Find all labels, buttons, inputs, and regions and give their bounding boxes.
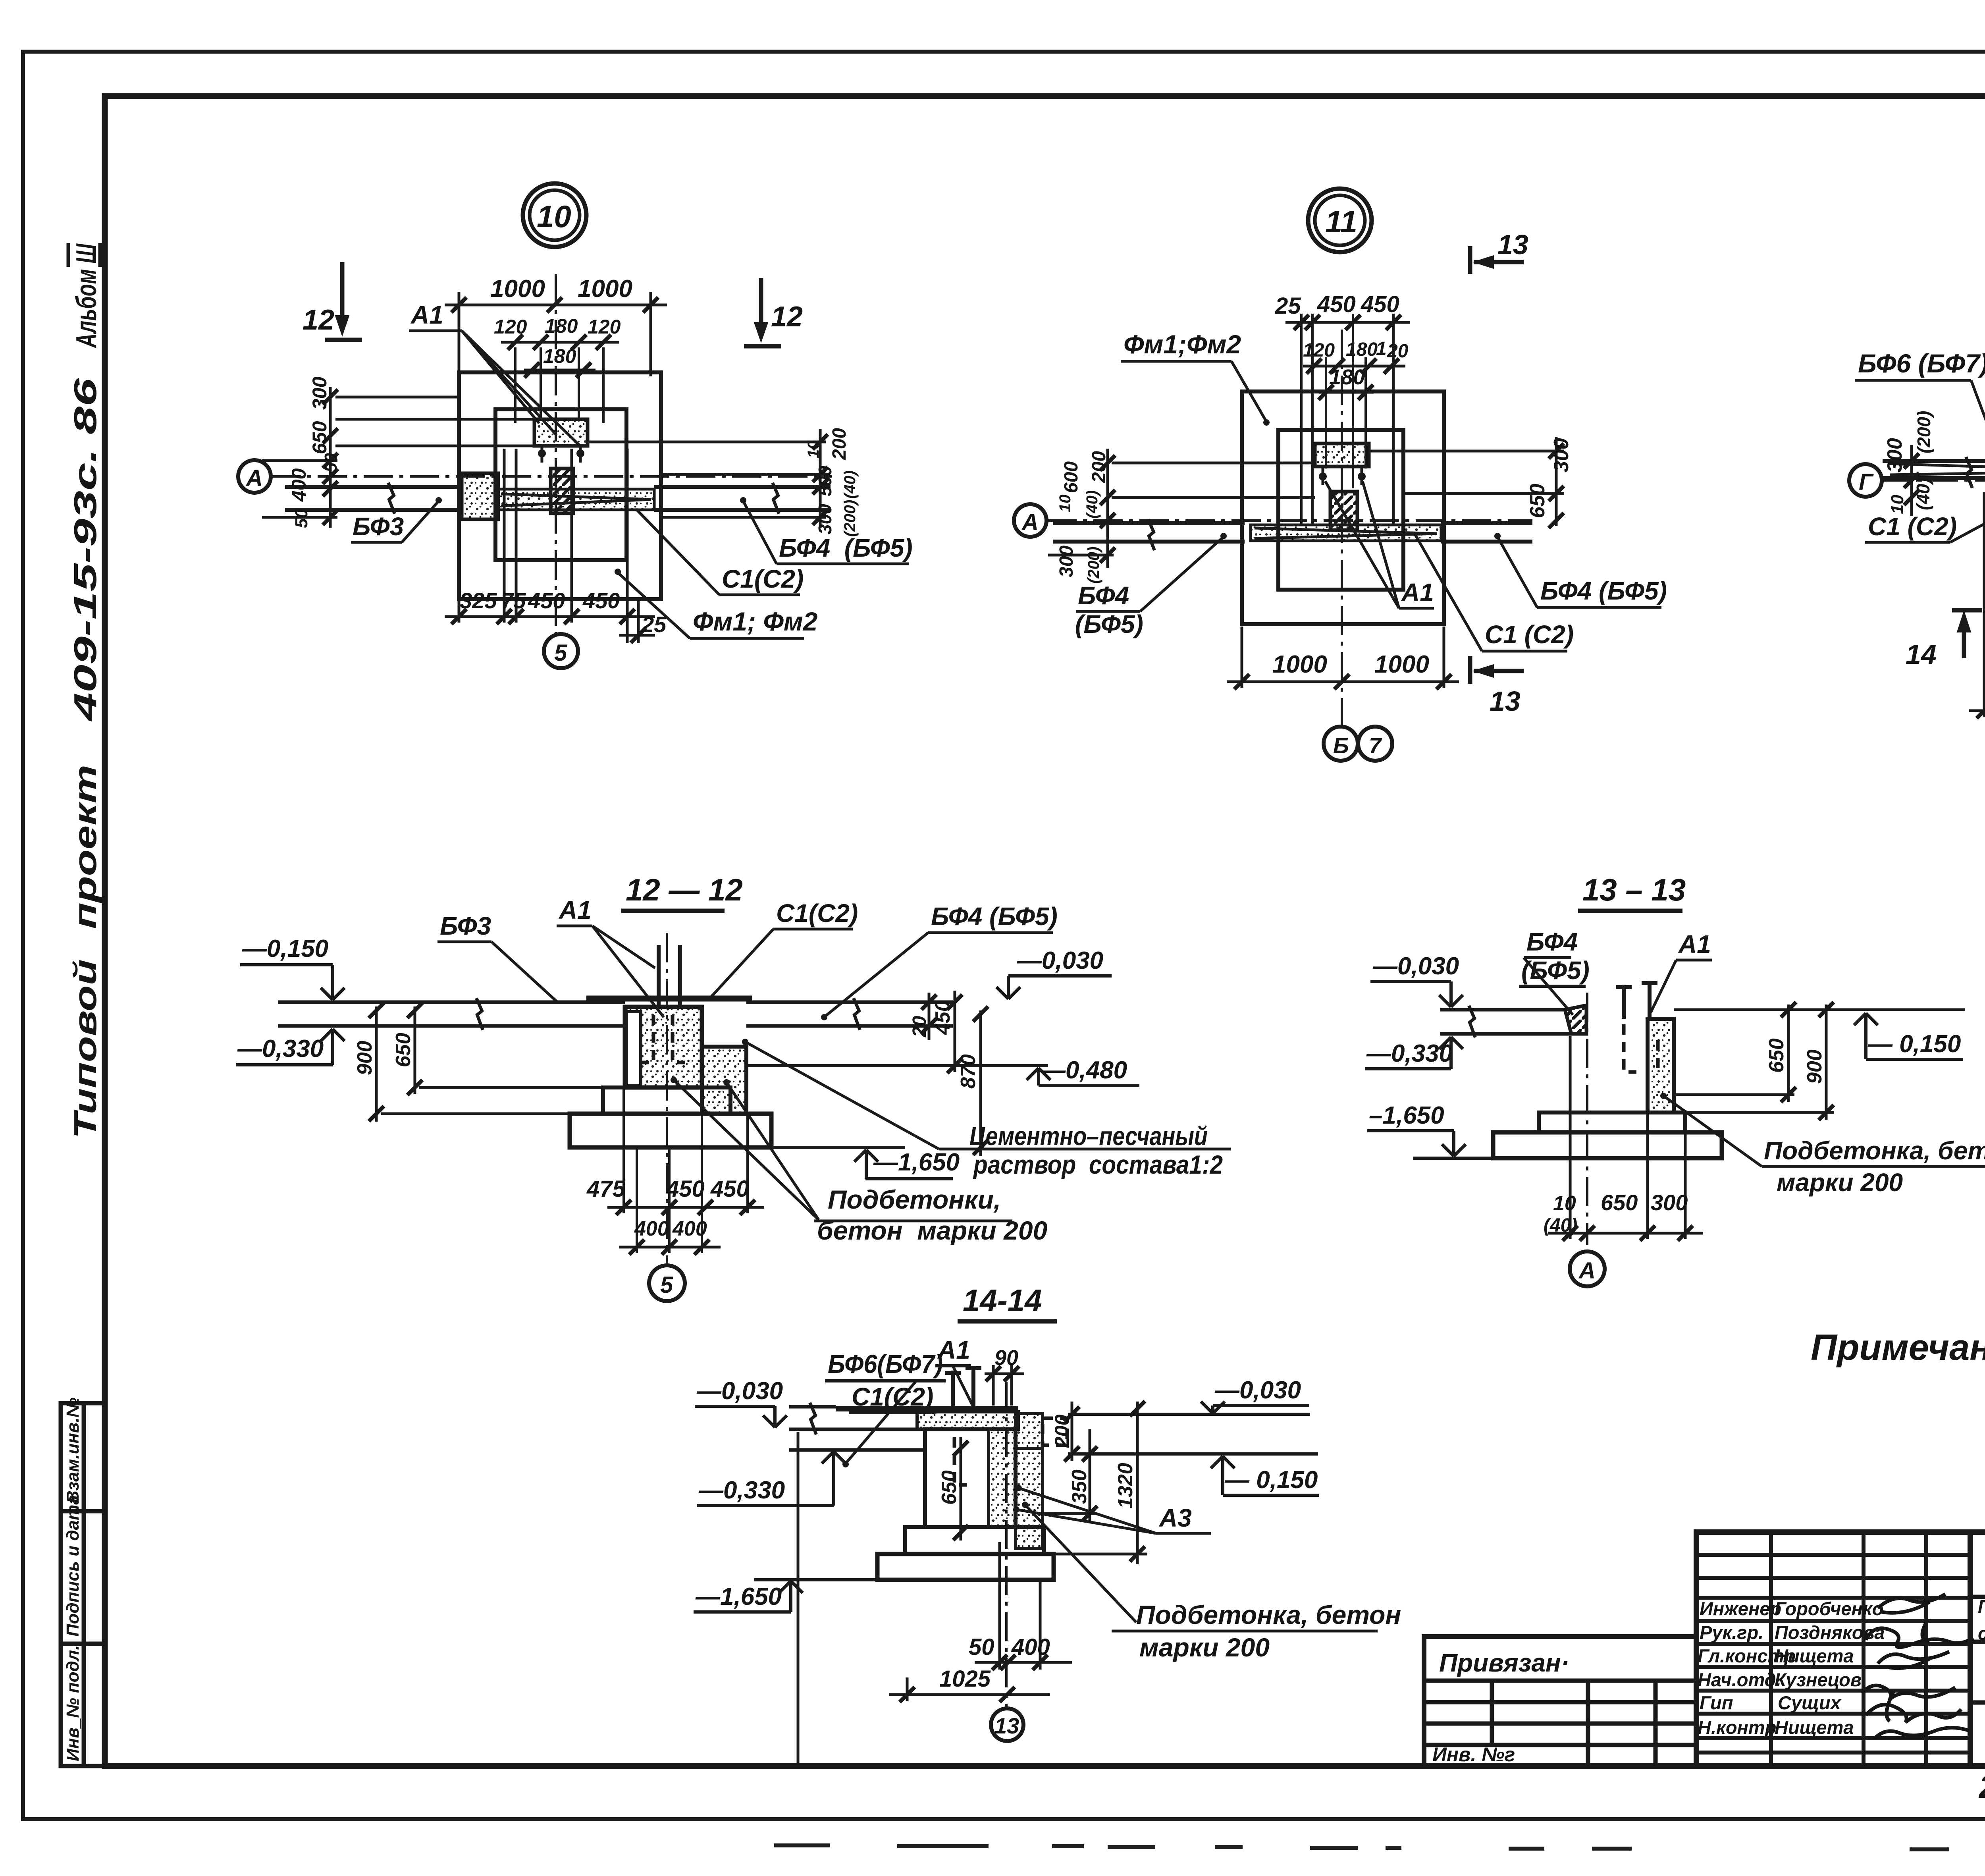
top plate С1 thick line xyxy=(836,1406,1018,1411)
vertical extension lines through figure xyxy=(1301,314,1393,524)
section marker 14 left xyxy=(1952,610,1982,658)
foundation inner square xyxy=(495,409,626,560)
svg-text:А1: А1 xyxy=(1401,578,1434,607)
svg-text:БФ4 (БФ5): БФ4 (БФ5) xyxy=(931,902,1058,931)
right step dotted xyxy=(702,1047,746,1114)
top plate С1 thick line xyxy=(586,996,752,1002)
grid axis circle А xyxy=(1014,504,1046,537)
monolithic joint strip xyxy=(1251,525,1441,541)
svg-text:Альбом Ш: Альбом Ш xyxy=(71,243,102,348)
vertical extension lines xyxy=(624,1088,748,1253)
svg-text:870: 870 xyxy=(957,1054,980,1089)
svg-text:Привязан·: Привязан· xyxy=(1439,1648,1569,1677)
svg-text:А1: А1 xyxy=(558,896,592,924)
floor beam left БФ3 xyxy=(278,998,625,1030)
svg-text:марки 200: марки 200 xyxy=(1139,1633,1270,1662)
anchor dashed in pedestal xyxy=(954,1437,967,1485)
svg-text:(40): (40) xyxy=(841,470,859,499)
svg-text:(40): (40) xyxy=(1544,1215,1577,1236)
beam БФ6 dotted under plate xyxy=(917,1412,1018,1429)
floor beam right БФ4 xyxy=(746,998,953,1030)
svg-text:400: 400 xyxy=(1011,1634,1050,1660)
foundation step xyxy=(603,1087,730,1114)
section marker 12 right xyxy=(744,278,781,346)
svg-text:—0,030: —0,030 xyxy=(696,1377,783,1405)
svg-text:Фм1;Фм2: Фм1;Фм2 xyxy=(1124,330,1241,359)
anchor bolts xyxy=(538,449,546,457)
svg-text:50: 50 xyxy=(292,509,311,528)
left dimension stack xyxy=(262,387,534,528)
beam end embedded left xyxy=(626,1012,641,1086)
dimension 180 xyxy=(524,369,595,372)
А3 dotted band down xyxy=(1016,1448,1043,1548)
svg-text:25: 25 xyxy=(1275,293,1301,319)
svg-text:(БФ5): (БФ5) xyxy=(1521,956,1590,985)
svg-text:— 0,150: — 0,150 xyxy=(1867,1030,1961,1058)
svg-text:—0,330: —0,330 xyxy=(698,1477,785,1504)
svg-text:—0,030: —0,030 xyxy=(1214,1377,1301,1404)
dimension 120 180 1 20 xyxy=(1303,365,1405,368)
svg-text:120: 120 xyxy=(494,316,527,338)
foundation outer square Фм1;Фм2 xyxy=(1242,391,1444,624)
svg-text:11: 11 xyxy=(1325,204,1357,239)
svg-text:14: 14 xyxy=(1906,639,1937,670)
svg-text:(200): (200) xyxy=(841,500,859,537)
svg-text:50: 50 xyxy=(969,1634,994,1660)
svg-text:1320: 1320 xyxy=(1114,1463,1137,1509)
svg-text:650: 650 xyxy=(1765,1038,1788,1073)
svg-text:Позднякова: Позднякова xyxy=(1775,1622,1885,1643)
svg-text:(40): (40) xyxy=(1913,478,1933,510)
beam БФ4 left (plan) xyxy=(1053,519,1245,550)
svg-text:200: 200 xyxy=(1089,451,1110,483)
svg-text:с сейсмичностью 7,8,9 баллов.): с сейсмичностью 7,8,9 баллов.) xyxy=(1978,1623,1985,1644)
svg-text:300: 300 xyxy=(1550,438,1573,472)
svg-text:А3: А3 xyxy=(1158,1504,1192,1532)
title block right part grid xyxy=(1970,1532,1985,1766)
svg-text:300: 300 xyxy=(1056,546,1077,577)
right dimension stack xyxy=(588,429,826,528)
svg-text:900: 900 xyxy=(353,1041,376,1075)
bottom dims 400 400 xyxy=(619,1246,721,1249)
svg-text:1000: 1000 xyxy=(490,275,545,303)
svg-text:марки 200: марки 200 xyxy=(1777,1168,1903,1197)
svg-text:13: 13 xyxy=(994,1713,1019,1738)
grid circle А xyxy=(1570,1251,1605,1286)
svg-text:А1: А1 xyxy=(937,1336,970,1364)
svg-text:10: 10 xyxy=(1888,495,1907,514)
svg-text:Инв_№ подл.: Инв_№ подл. xyxy=(63,1645,83,1761)
vertical centerline dash-dot xyxy=(555,274,557,633)
svg-text:проект: проект xyxy=(67,765,103,929)
anchor plate dotted xyxy=(534,419,588,446)
section marker 12 left xyxy=(325,262,362,340)
svg-text:12: 12 xyxy=(303,304,334,336)
foundation step xyxy=(905,1527,1044,1554)
svg-text:Подбетонки,: Подбетонки, xyxy=(828,1185,1001,1214)
anchor dashed xyxy=(1624,1024,1658,1072)
bottom dimension 2000 400 xyxy=(1969,492,1985,717)
left rotated dims xyxy=(1904,453,1919,469)
svg-text:Горобченко: Горобченко xyxy=(1775,1598,1883,1619)
signature squiggles xyxy=(1862,1594,1973,1739)
svg-text:БФ4 (БФ5): БФ4 (БФ5) xyxy=(779,534,913,562)
vertical centerline dash-dot xyxy=(1341,330,1343,725)
svg-text:БФ6 (БФ7): БФ6 (БФ7) xyxy=(1858,349,1985,378)
svg-text:Взам.инв.№: Взам.инв.№ xyxy=(63,1398,83,1503)
svg-text:—0,150: —0,150 xyxy=(242,935,328,962)
svg-text:450: 450 xyxy=(582,588,620,613)
left rotated dims 900 650 xyxy=(376,1006,625,1122)
А3 block dotted xyxy=(1016,1413,1043,1448)
svg-text:Нищета: Нищета xyxy=(1775,1717,1854,1738)
overline and underline of album III numeral xyxy=(67,243,70,267)
svg-text:13: 13 xyxy=(1490,686,1521,717)
grid circle Б xyxy=(1324,727,1358,761)
svg-text:1: 1 xyxy=(1376,338,1387,359)
svg-text:Г: Г xyxy=(1859,469,1874,495)
svg-text:12 — 12: 12 — 12 xyxy=(626,872,743,907)
grid axis circle А xyxy=(238,460,271,493)
svg-text:БФ6(БФ7): БФ6(БФ7) xyxy=(828,1349,943,1379)
svg-text:5: 5 xyxy=(660,1272,673,1298)
fold mark dashes below border xyxy=(774,1845,1985,1850)
svg-text:25665-03: 25665-03 xyxy=(1978,1769,1985,1805)
svg-text:13 – 13: 13 – 13 xyxy=(1582,872,1686,907)
beam seat dotted left xyxy=(462,473,498,519)
monolithic joint strip xyxy=(498,489,654,510)
dimension 180 xyxy=(1319,391,1374,394)
horizontal axis dash-dot xyxy=(1883,479,1985,482)
svg-text:5: 5 xyxy=(554,640,567,666)
foundation step xyxy=(1539,1112,1685,1132)
vertical centerline dash-dot xyxy=(1005,1382,1008,1707)
svg-text:Инженер: Инженер xyxy=(1700,1598,1781,1619)
foundation outer square Фм1 xyxy=(459,372,661,599)
svg-text:— 0,150: — 0,150 xyxy=(1224,1466,1318,1494)
svg-text:12: 12 xyxy=(771,301,803,333)
foundation inner square xyxy=(1278,430,1403,590)
svg-text:(40): (40) xyxy=(1083,490,1101,519)
right dims 200 350 1320 650 xyxy=(961,1402,1147,1564)
svg-text:С1(С2): С1(С2) xyxy=(776,899,858,927)
svg-text:—0,030: —0,030 xyxy=(1372,952,1459,980)
svg-text:Б: Б xyxy=(1333,733,1349,758)
svg-text:А1: А1 xyxy=(1678,930,1711,958)
column above xyxy=(657,945,661,1006)
svg-text:(200): (200) xyxy=(1914,411,1934,453)
pedestal dotted band right xyxy=(989,1429,1016,1527)
svg-text:Производственная база ремстрой: Производственная база ремстройучастка с xyxy=(1978,1596,1985,1617)
beam БФ4 right (plan) xyxy=(1441,523,1532,542)
svg-text:450: 450 xyxy=(1317,291,1356,317)
svg-text:409-15-93с. 86: 409-15-93с. 86 xyxy=(67,378,103,722)
svg-text:БФ3: БФ3 xyxy=(440,912,491,940)
svg-text:Типовой: Типовой xyxy=(67,959,103,1139)
section marker 13 bottom xyxy=(1470,656,1524,684)
node circle 11 xyxy=(1308,189,1372,252)
svg-text:650: 650 xyxy=(938,1470,961,1505)
base slab xyxy=(570,1114,771,1147)
svg-text:1000: 1000 xyxy=(578,275,632,303)
column hatched xyxy=(551,469,573,513)
svg-text:10: 10 xyxy=(805,441,822,459)
svg-text:С1 (С2): С1 (С2) xyxy=(1868,512,1957,541)
bottom dims 10 (40) 650 300 xyxy=(1548,1036,1703,1239)
grid circle 5 xyxy=(649,1265,685,1301)
svg-text:Подбетонка, бетон: Подбетонка, бетон xyxy=(1764,1136,1985,1165)
bottom dim 1025 xyxy=(798,1432,1050,1763)
svg-text:600: 600 xyxy=(1061,461,1082,493)
signature table grid xyxy=(1696,1532,1970,1766)
bottom dims 475 450 450 xyxy=(607,1206,764,1209)
svg-text:180: 180 xyxy=(1329,365,1365,389)
svg-text:Н.контр: Н.контр xyxy=(1698,1717,1776,1738)
svg-text:180: 180 xyxy=(1346,339,1378,360)
svg-text:БФ3: БФ3 xyxy=(353,512,404,541)
svg-text:Рук.гр.: Рук.гр. xyxy=(1700,1622,1763,1643)
svg-text:1000: 1000 xyxy=(1374,651,1429,678)
floor beam lines left xyxy=(1440,1006,1570,1037)
svg-text:650: 650 xyxy=(392,1033,415,1067)
svg-text:325: 325 xyxy=(460,588,497,613)
bottom dimension 325 75 450 450 25 xyxy=(445,449,655,643)
svg-text:(БФ5): (БФ5) xyxy=(1075,610,1143,638)
vertical centerline dash-dot xyxy=(666,933,668,1263)
svg-text:450: 450 xyxy=(931,1000,954,1035)
svg-text:200: 200 xyxy=(1051,1414,1073,1448)
svg-text:Гип: Гип xyxy=(1700,1692,1733,1713)
signature table role labels xyxy=(1698,1598,1796,1738)
svg-text:Нищета: Нищета xyxy=(1775,1645,1854,1666)
svg-text:14-14: 14-14 xyxy=(963,1283,1042,1318)
svg-text:—0,330: —0,330 xyxy=(1366,1040,1453,1067)
floor beam lines left xyxy=(789,1403,927,1450)
dimension 1000 1000 top xyxy=(445,292,667,376)
svg-text:650: 650 xyxy=(308,421,331,454)
svg-text:450: 450 xyxy=(666,1176,705,1202)
svg-text:А: А xyxy=(1021,509,1039,535)
svg-text:—1,650: —1,650 xyxy=(695,1583,782,1610)
horizontal axis dash-dot xyxy=(1047,519,1532,522)
svg-text:Подпись и дата: Подпись и дата xyxy=(63,1495,83,1637)
svg-text:С1 (С2): С1 (С2) xyxy=(1485,620,1574,649)
column dotted xyxy=(1648,1019,1674,1112)
svg-text:Подбетонка, бетон: Подбетонка, бетон xyxy=(1136,1600,1401,1629)
pedestal dotted xyxy=(625,1007,702,1087)
svg-text:75: 75 xyxy=(501,588,526,613)
extension lines from bolt dims to plate xyxy=(515,347,603,423)
svg-text:300: 300 xyxy=(815,504,835,534)
svg-text:650: 650 xyxy=(1526,484,1549,518)
svg-text:Фм1; Фм2: Фм1; Фм2 xyxy=(693,607,818,636)
base slab xyxy=(1493,1132,1722,1158)
svg-text:С1(С2): С1(С2) xyxy=(722,565,804,593)
anchor bolts above xyxy=(945,1366,981,1409)
svg-text:180: 180 xyxy=(545,315,578,337)
svg-text:Цементно–песчаный: Цементно–песчаный xyxy=(969,1121,1208,1151)
section marker 13 top xyxy=(1470,246,1524,274)
svg-text:300: 300 xyxy=(308,376,331,410)
svg-text:А: А xyxy=(1578,1258,1596,1284)
bottom dimension 1000 1000 xyxy=(1227,627,1459,688)
svg-text:Примечания см. лист 11.: Примечания см. лист 11. xyxy=(1811,1327,1985,1368)
anchor slots dashed xyxy=(641,1015,685,1062)
svg-text:Инв. №г: Инв. №г xyxy=(1432,1743,1515,1766)
svg-text:300: 300 xyxy=(1651,1190,1688,1215)
svg-text:1025: 1025 xyxy=(939,1666,991,1692)
svg-text:50: 50 xyxy=(321,453,341,472)
svg-text:7: 7 xyxy=(1369,733,1382,758)
svg-text:900: 900 xyxy=(1803,1049,1826,1084)
grid circle 7 xyxy=(1358,727,1392,761)
svg-text:—0,030: —0,030 xyxy=(1017,947,1103,974)
node circle 10 xyxy=(523,183,586,247)
svg-text:400: 400 xyxy=(634,1217,669,1240)
beam БФ6 left (plan) xyxy=(1883,457,1985,488)
right dimension stack xyxy=(1369,437,1564,526)
svg-text:350: 350 xyxy=(1068,1469,1091,1504)
bottom dims 50 400 xyxy=(975,1542,1072,1670)
svg-text:20: 20 xyxy=(909,1016,930,1037)
grid axis circle Г xyxy=(1849,464,1882,497)
svg-text:120: 120 xyxy=(1303,340,1335,361)
beam wedge hatched xyxy=(1565,1005,1586,1034)
svg-text:25: 25 xyxy=(641,612,667,637)
signature table name labels xyxy=(1775,1598,1885,1738)
svg-text:1000: 1000 xyxy=(1272,651,1327,678)
left dimension stack xyxy=(1048,449,1315,568)
grid circle 13 xyxy=(991,1708,1023,1741)
beam БФ3 left (plan) xyxy=(285,483,462,514)
svg-text:А: А xyxy=(245,465,263,491)
right dims 650 900 xyxy=(1674,1005,1965,1120)
svg-text:650: 650 xyxy=(1601,1190,1638,1215)
left margin small table (Инв strip) xyxy=(61,1403,105,1766)
right rotated dims 20 450 870 xyxy=(929,991,981,1156)
horizontal axis dash-dot line А xyxy=(272,475,832,478)
svg-text:475: 475 xyxy=(586,1176,626,1202)
svg-text:Сущих: Сущих xyxy=(1778,1692,1842,1713)
svg-text:БФ4: БФ4 xyxy=(1078,581,1129,610)
grid circle 5 xyxy=(544,634,578,668)
svg-text:13: 13 xyxy=(1497,229,1528,260)
svg-text:Кузнецов: Кузнецов xyxy=(1775,1669,1862,1690)
svg-text:10: 10 xyxy=(537,199,571,234)
svg-text:180: 180 xyxy=(543,345,576,367)
svg-text:—1,650: —1,650 xyxy=(873,1149,960,1176)
dimension 25 450 450 xyxy=(1285,321,1410,324)
column hatched xyxy=(1330,492,1357,530)
pedestal outline xyxy=(925,1429,1016,1527)
dimension 120 180 120 xyxy=(501,341,619,344)
svg-text:—0,480: —0,480 xyxy=(1041,1057,1127,1084)
svg-text:Нач.отд.: Нач.отд. xyxy=(1698,1669,1781,1690)
svg-text:БФ4 (БФ5): БФ4 (БФ5) xyxy=(1540,576,1667,605)
svg-text:10: 10 xyxy=(1056,495,1074,513)
anchor bolts xyxy=(1319,472,1327,480)
svg-text:400: 400 xyxy=(288,468,310,502)
vertical centerline dash-dot xyxy=(1586,993,1588,1245)
svg-text:450: 450 xyxy=(1361,291,1399,317)
anchor bolts above xyxy=(1616,981,1657,1019)
svg-text:раствор состава1:2: раствор состава1:2 xyxy=(973,1150,1223,1179)
beam БФ4 right (plan) xyxy=(654,483,831,514)
svg-text:200: 200 xyxy=(829,428,850,460)
svg-text:—0,330: —0,330 xyxy=(237,1035,324,1062)
left part of title block (Привязан table) xyxy=(1424,1637,1696,1766)
anchor plate dotted xyxy=(1315,443,1369,467)
base slab xyxy=(877,1554,1054,1580)
А3 dashed box xyxy=(1043,1418,1067,1445)
svg-text:А1: А1 xyxy=(410,301,443,329)
svg-text:400: 400 xyxy=(672,1217,707,1240)
svg-text:450: 450 xyxy=(710,1176,749,1202)
svg-text:120: 120 xyxy=(588,316,621,338)
svg-text:10: 10 xyxy=(1553,1192,1576,1215)
svg-text:БФ4: БФ4 xyxy=(1526,927,1578,956)
svg-text:(200): (200) xyxy=(1085,547,1102,584)
svg-text:500: 500 xyxy=(815,466,835,496)
svg-text:300: 300 xyxy=(1883,438,1906,472)
svg-text:450: 450 xyxy=(528,588,565,613)
svg-text:–1,650: –1,650 xyxy=(1369,1102,1444,1129)
svg-text:20: 20 xyxy=(1387,341,1409,362)
